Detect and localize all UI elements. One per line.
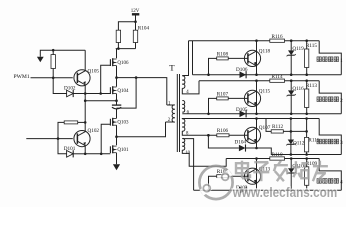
wire collector-emitter vertical — [255, 79, 258, 115]
wire riser to Q106 gate — [101, 65, 111, 93]
transformer T label — [169, 63, 175, 73]
ground arrow (driver A) — [37, 57, 44, 62]
transformer secondary winding 4 — [182, 138, 184, 150]
svg-text:Q102: Q102 — [88, 128, 100, 134]
wire output connector bracket — [319, 159, 341, 191]
wire rail1 inner return — [192, 41, 194, 75]
svg-text:PWM1: PWM1 — [14, 74, 30, 80]
transistor Q113 — [244, 166, 270, 184]
diode D106 — [236, 67, 248, 78]
wire lower midpoint to primary pin 2 — [117, 122, 166, 137]
wire 12V rail — [118, 20, 136, 30]
svg-text:www.elecfans.com: www.elecfans.com — [232, 185, 337, 200]
transformer secondary winding 2 — [182, 101, 184, 113]
wire to half-bridge source node — [84, 99, 118, 102]
svg-text:R115: R115 — [306, 43, 317, 49]
svg-text:Q115: Q115 — [259, 89, 271, 95]
wire collector-emitter vertical — [255, 157, 258, 191]
svg-text:R107: R107 — [217, 91, 229, 97]
svg-text:D101: D101 — [64, 146, 76, 152]
wire rail bottom (3) — [246, 148, 342, 155]
transistor Q107 — [244, 125, 270, 144]
resistor R105 — [207, 169, 248, 191]
resistor R113 — [305, 79, 318, 115]
output label drive-signal-2 — [317, 97, 343, 104]
wire PWM1 input to Q105 base — [31, 77, 73, 79]
resistor R104 (right) — [133, 25, 149, 48]
wire winding1 to rail 1 — [182, 41, 188, 76]
transistor Q103 (MOSFET) — [110, 118, 129, 126]
output label drive-signal-4 — [317, 179, 343, 186]
svg-text:Q104: Q104 — [117, 89, 129, 94]
wire capacitor bottom riser — [117, 78, 137, 109]
wire emitter row A to Q104 gate — [85, 92, 110, 95]
svg-text:Q103: Q103 — [117, 121, 129, 126]
zener diode Q110 — [287, 157, 305, 191]
resistor R114 — [270, 74, 285, 82]
svg-text:Q107: Q107 — [259, 125, 271, 131]
diode D102 — [53, 78, 86, 97]
wire chain top — [116, 49, 118, 59]
svg-text:Q106: Q106 — [117, 61, 129, 66]
svg-text:1: 1 — [340, 58, 343, 64]
svg-text:R106: R106 — [217, 128, 229, 134]
svg-text:4: 4 — [340, 180, 343, 186]
pin 1 label — [168, 102, 171, 107]
input label PWM1 — [14, 74, 30, 80]
wire Q102 collector up — [84, 122, 86, 131]
svg-text:T: T — [169, 63, 175, 73]
wire input to Q102 base — [26, 137, 73, 140]
wire Q104 source down — [116, 94, 118, 105]
transistor Q115 — [244, 89, 270, 107]
output label drive-signal-1 — [317, 57, 343, 64]
wire tap8 down to diode row — [207, 134, 239, 148]
transformer secondary winding 3 — [182, 119, 185, 131]
wire Q105 collector up — [84, 50, 86, 71]
transformer secondary winding 1 — [182, 76, 185, 89]
svg-text:D102: D102 — [64, 85, 76, 91]
diode D103 — [236, 185, 248, 194]
wire output connector bracket — [319, 41, 341, 75]
svg-text:Q101: Q101 — [117, 148, 129, 153]
svg-text:R113: R113 — [306, 83, 317, 89]
power 12V symbol — [131, 9, 140, 22]
svg-text:2: 2 — [340, 98, 343, 104]
resistor R108 — [207, 51, 248, 76]
wire rail top (2) — [199, 80, 319, 82]
resistor bias (driver B) — [58, 121, 86, 139]
svg-text:Q105: Q105 — [88, 69, 100, 75]
resistor R111 — [305, 117, 320, 156]
resistor R106 — [182, 128, 248, 137]
transformer primary winding — [166, 105, 175, 122]
wire Q103 source to Q101 drain — [115, 125, 118, 145]
diode D105 — [236, 107, 248, 117]
resistor R115 — [305, 39, 318, 76]
wire output connector bracket 3 — [319, 119, 341, 155]
wire R104 bottoms to half-bridge — [116, 47, 136, 50]
svg-text:Q119: Q119 — [292, 46, 304, 52]
diode D101 — [58, 139, 86, 158]
watermark logo — [199, 166, 232, 199]
wire Q101 source down — [116, 153, 118, 164]
wire Q102 emitter down — [84, 146, 86, 154]
wire tap10 to rail 4 — [182, 150, 226, 166]
wire Q106 source to Q104 drain — [115, 66, 118, 87]
svg-text:R108: R108 — [217, 51, 229, 57]
resistor R110 — [270, 152, 285, 160]
wire riser to Q103 gate — [101, 124, 110, 154]
wire Q105 emitter down — [84, 85, 86, 94]
svg-text:R104: R104 — [138, 25, 150, 31]
ground arrow (half-bridge) — [113, 164, 120, 170]
resistor R109 — [305, 157, 318, 191]
wire output connector bracket — [319, 81, 341, 114]
wire rail bottom (1) — [193, 74, 342, 76]
transistor Q106 (MOSFET) — [110, 58, 129, 66]
pin 8 label — [186, 132, 189, 137]
wire rail top (4) — [226, 158, 319, 160]
wire rail top (3) — [182, 118, 319, 121]
transistor Q118 — [244, 49, 270, 67]
svg-text:R112: R112 — [272, 124, 283, 130]
pin 2 label — [168, 118, 171, 123]
zener diode Q119 — [287, 39, 305, 76]
resistor R104 (left) — [116, 30, 120, 48]
svg-text:Q118: Q118 — [259, 49, 271, 55]
wire driver A output down to driver B — [84, 94, 86, 123]
svg-text:D104: D104 — [235, 140, 247, 146]
wire emitter row B to Q101 gate — [85, 153, 110, 156]
wire tap4 to rail 2 — [182, 81, 199, 94]
wire collector-emitter vertical 3 — [255, 117, 258, 149]
resistor R116 — [270, 34, 285, 42]
capacitor (DC block) — [112, 105, 121, 109]
transistor Q102 — [74, 128, 100, 147]
pin 10 label — [185, 151, 190, 156]
wire top rail of driver A — [40, 50, 85, 57]
wire collector-emitter vertical — [255, 39, 258, 76]
resistor R107 — [207, 91, 248, 115]
wire rail bottom (4) — [194, 189, 342, 191]
svg-text:3: 3 — [340, 140, 343, 146]
transistor Q104 (MOSFET) — [110, 86, 129, 94]
wire capacitor to Q103 — [116, 109, 118, 118]
resistor bias (driver A) — [51, 49, 55, 79]
transistor Q105 — [74, 69, 100, 86]
transistor Q101 (MOSFET) — [110, 145, 129, 153]
resistor R112 — [266, 119, 308, 134]
transformer core — [177, 74, 179, 152]
wire rail top (1) — [189, 40, 320, 42]
diode D104 — [235, 140, 247, 152]
wire rail bottom (2) — [182, 113, 341, 115]
zener diode Q112 — [286, 117, 304, 156]
zener diode Q116 — [287, 79, 305, 115]
wire winding4 to rail4 bottom — [182, 139, 193, 191]
pin 6 label — [187, 110, 190, 115]
output label drive-signal-3 — [317, 139, 343, 146]
pin 4 label — [186, 90, 189, 95]
wire half-bridge midpoint to primary pin 1 — [117, 76, 167, 105]
watermark text — [232, 161, 337, 200]
svg-text:Q116: Q116 — [292, 86, 304, 92]
